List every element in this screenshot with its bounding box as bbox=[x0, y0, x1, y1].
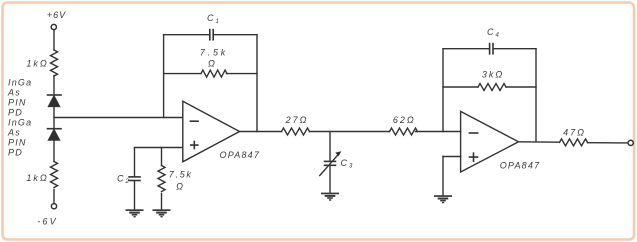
wire U2 feedback top right segment bbox=[493, 48, 536, 50]
arrow of variable capacitor C3 bbox=[320, 151, 342, 175]
svg-text:PD: PD bbox=[8, 148, 23, 158]
wire to 3kΩ left bbox=[443, 86, 478, 88]
wire +6V to R1 bbox=[53, 30, 55, 50]
wire 7.5k stem top bbox=[161, 148, 163, 166]
svg-text:62Ω: 62Ω bbox=[393, 115, 416, 125]
svg-text:47Ω: 47Ω bbox=[563, 127, 586, 137]
photodiode D1 InGaAs PIN PD bbox=[48, 95, 62, 107]
wire D2 to R2 bbox=[53, 140, 55, 161]
resistor 7.5kΩ feedback (U1) bbox=[201, 70, 227, 77]
wire 62Ω to U2 inverting input bbox=[416, 131, 461, 133]
photodiode D2 InGaAs PIN PD bbox=[48, 129, 62, 141]
wire U2 feedback top left segment bbox=[443, 48, 489, 50]
resistor 27Ω bbox=[282, 128, 310, 135]
svg-text:As: As bbox=[7, 88, 21, 98]
svg-text:InGa: InGa bbox=[8, 118, 32, 128]
svg-text:Ω: Ω bbox=[176, 182, 185, 192]
svg-text:3kΩ: 3kΩ bbox=[482, 70, 504, 80]
terminal output bbox=[628, 140, 633, 145]
wire D1 to junction to D2 bbox=[53, 107, 55, 129]
wire R1 to D1 bbox=[53, 76, 55, 96]
resistor 47Ω bbox=[560, 139, 588, 146]
resistor 3kΩ feedback (U2) bbox=[478, 84, 506, 91]
capacitor C2 bbox=[129, 177, 140, 181]
ground (7.5k resistor) bbox=[153, 209, 171, 217]
label 7.5kΩ (U1 + input) bbox=[169, 170, 193, 192]
svg-text:As: As bbox=[7, 128, 21, 138]
wire U1 feedback right vertical bbox=[256, 35, 258, 132]
label InGaAs PIN PD (D2) bbox=[7, 118, 32, 158]
svg-text:1kΩ: 1kΩ bbox=[26, 59, 48, 69]
wire C2 stem bottom bbox=[134, 181, 136, 210]
svg-text:Ω: Ω bbox=[208, 58, 217, 68]
svg-text:PIN: PIN bbox=[8, 138, 27, 148]
op-amp U1 OPA847 bbox=[183, 101, 240, 162]
ground (C2) bbox=[126, 209, 144, 217]
svg-text:7.5k: 7.5k bbox=[200, 48, 228, 58]
wire U1 output to R 27Ω bbox=[240, 131, 282, 133]
resistor R2 1kΩ (bottom bias) bbox=[51, 162, 58, 188]
U1 minus sign bbox=[190, 120, 198, 122]
U1 plus sign bbox=[191, 142, 198, 149]
svg-text:OPA847: OPA847 bbox=[220, 150, 261, 160]
label InGaAs PIN PD (D1) bbox=[7, 78, 32, 118]
capacitor C4 bbox=[490, 44, 493, 54]
wire R2 to -6V bbox=[53, 190, 55, 204]
resistor 7.5kΩ to ground (U1 + input) bbox=[158, 166, 165, 192]
wire U1 noninverting input bbox=[135, 147, 183, 149]
resistor R1 1kΩ (top bias) bbox=[51, 50, 58, 76]
svg-text:-6V: -6V bbox=[37, 216, 58, 226]
wire U1 feedback left vertical bbox=[163, 35, 165, 118]
wire 47Ω to output terminal bbox=[588, 142, 629, 144]
wire C3 stem bottom bbox=[329, 166, 331, 193]
ground (C3) bbox=[321, 193, 339, 201]
capacitor C1 bbox=[210, 30, 213, 40]
wire C3 stem top bbox=[329, 132, 331, 162]
wire U2 feedback right vertical bbox=[535, 49, 537, 142]
wire U2 noninverting input bbox=[443, 156, 461, 158]
capacitor C3 (variable) bbox=[325, 161, 336, 165]
op-amp U2 OPA847 bbox=[461, 111, 519, 172]
svg-text:OPA847: OPA847 bbox=[500, 160, 541, 170]
svg-text:7.5k: 7.5k bbox=[169, 170, 193, 180]
svg-text:PD: PD bbox=[8, 108, 23, 118]
svg-text:1kΩ: 1kΩ bbox=[26, 173, 48, 183]
svg-text:InGa: InGa bbox=[8, 78, 32, 88]
wire feedback top left segment bbox=[164, 34, 210, 36]
wire 7.5k stem bottom bbox=[161, 194, 163, 210]
ground (U2 + input) bbox=[434, 195, 452, 203]
label 7.5kΩ (feedback U1) bbox=[200, 48, 228, 69]
U2 plus sign bbox=[470, 153, 478, 161]
wire U2 feedback left vertical bbox=[442, 49, 444, 132]
svg-text:+6V: +6V bbox=[47, 10, 66, 20]
wire 3kΩ right bbox=[506, 86, 536, 88]
wire feedback top right segment bbox=[213, 34, 257, 36]
wire to feedback resistor left bbox=[164, 73, 201, 75]
svg-text:27Ω: 27Ω bbox=[285, 115, 309, 125]
wire feedback resistor right bbox=[227, 73, 258, 75]
terminal -6V bbox=[51, 204, 56, 209]
wire photodiode node to U1 inverting input bbox=[54, 117, 183, 119]
svg-text:PIN: PIN bbox=[8, 98, 27, 108]
wire U2 + input to ground bbox=[442, 157, 444, 196]
terminal +6V bbox=[51, 24, 56, 29]
wire C2 stem top bbox=[134, 148, 136, 177]
wire 27Ω to node C3 and on to R 62Ω bbox=[310, 131, 390, 133]
resistor 62Ω bbox=[390, 128, 418, 135]
wire U2 output to 47Ω bbox=[519, 141, 560, 143]
U2 minus sign bbox=[469, 132, 477, 134]
